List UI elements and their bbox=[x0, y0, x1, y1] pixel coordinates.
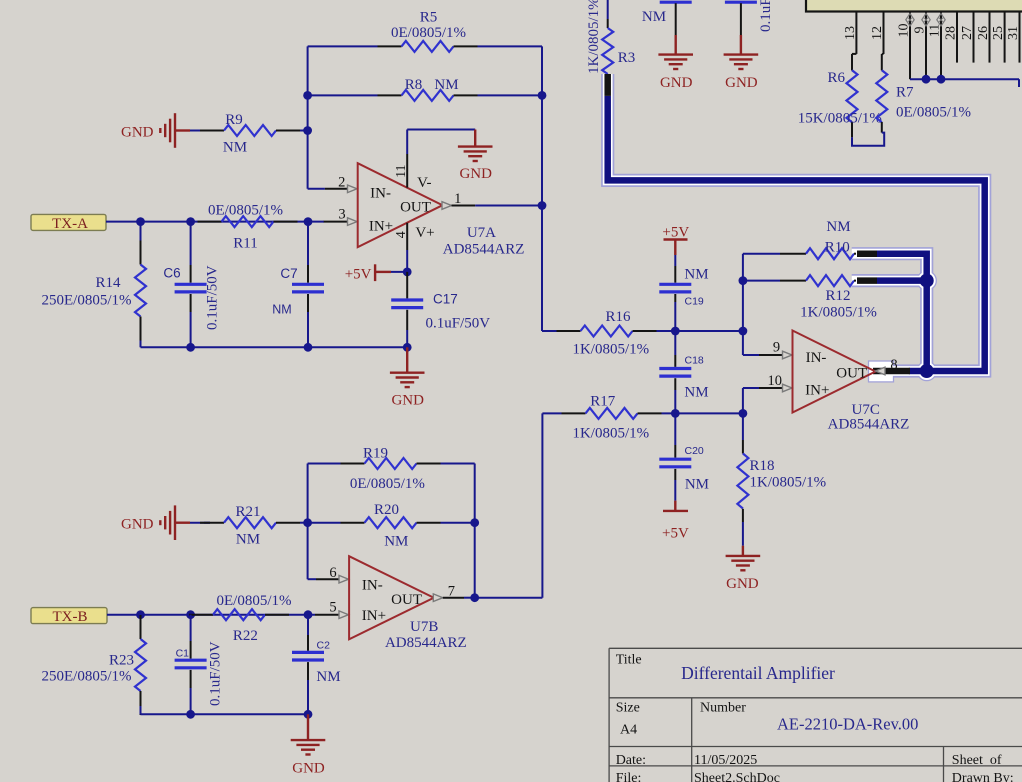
IC pin 11 bbox=[928, 12, 946, 80]
junction TX-B / C2 bbox=[304, 610, 313, 619]
svg-text:6: 6 bbox=[329, 565, 336, 581]
junction blob on highlighted net (output tee) bbox=[920, 364, 934, 378]
svg-text:OUT: OUT bbox=[400, 200, 431, 216]
svg-text:8: 8 bbox=[890, 357, 897, 373]
halo bump junction R12 bbox=[917, 271, 936, 290]
resistor R16 bbox=[557, 309, 743, 358]
svg-text:0.1uF: 0.1uF bbox=[758, 0, 774, 32]
svg-text:C19: C19 bbox=[685, 296, 704, 308]
pin 8 of U7C (highlighted) bbox=[873, 368, 910, 375]
junction C1 bottom bbox=[186, 710, 195, 719]
pin 8 arrow of U7C bbox=[876, 357, 898, 375]
junction V+ / C17 bbox=[403, 268, 412, 277]
svg-text:C18: C18 bbox=[685, 355, 704, 367]
svg-text:Title: Title bbox=[616, 653, 642, 668]
capacitor C17 bbox=[391, 272, 490, 347]
svg-text:R18: R18 bbox=[750, 458, 775, 474]
svg-text:R11: R11 bbox=[233, 236, 257, 252]
svg-text:TX-B: TX-B bbox=[53, 609, 88, 625]
svg-text:12: 12 bbox=[870, 26, 885, 40]
svg-text:R19: R19 bbox=[363, 446, 388, 462]
junction output U7B bbox=[470, 593, 479, 602]
svg-text:0E/0805/1%: 0E/0805/1% bbox=[217, 593, 292, 609]
junction TX-A / R14 bbox=[136, 217, 145, 226]
svg-text:R7: R7 bbox=[896, 85, 914, 101]
svg-text:C20: C20 bbox=[685, 445, 704, 457]
capacitor (top, partially off-canvas) bbox=[660, 0, 692, 55]
junction R17 / C20 column bbox=[671, 409, 680, 418]
svg-text:7: 7 bbox=[448, 583, 455, 599]
svg-text:13: 13 bbox=[843, 26, 858, 40]
svg-text:R9: R9 bbox=[225, 112, 243, 128]
svg-text:AD8544ARZ: AD8544ARZ bbox=[828, 417, 910, 433]
svg-text:Differentail Amplifier: Differentail Amplifier bbox=[681, 663, 835, 683]
svg-text:NM: NM bbox=[434, 77, 458, 93]
svg-text:C6: C6 bbox=[163, 266, 180, 281]
resistor R19 bbox=[308, 446, 475, 493]
svg-text:IN+: IN+ bbox=[805, 383, 829, 399]
wire V- to ground bbox=[407, 130, 475, 147]
svg-text:C2: C2 bbox=[317, 639, 331, 651]
resistor R14 bbox=[42, 222, 147, 348]
svg-text:R5: R5 bbox=[420, 10, 438, 26]
svg-text:GND: GND bbox=[726, 576, 759, 592]
svg-text:TX-A: TX-A bbox=[52, 216, 88, 232]
svg-text:1K/0805/1%: 1K/0805/1% bbox=[750, 475, 827, 491]
resistor R7 bbox=[876, 54, 971, 133]
svg-text:GND: GND bbox=[725, 75, 758, 91]
svg-text:IN-: IN- bbox=[806, 350, 827, 366]
IC pin 10 bbox=[897, 12, 915, 80]
pin 5 arrow bbox=[329, 600, 348, 619]
value NM of top capacitor bbox=[642, 9, 666, 25]
wire left rail of U7A feedback bbox=[307, 46, 309, 188]
svg-text:1K/0805/1%: 1K/0805/1% bbox=[572, 342, 649, 358]
svg-text:R10: R10 bbox=[825, 239, 850, 255]
svg-text:NM: NM bbox=[223, 140, 247, 156]
svg-text:IN-: IN- bbox=[362, 577, 383, 593]
svg-text:AE-2210-DA-Rev.00: AE-2210-DA-Rev.00 bbox=[777, 715, 918, 734]
junction R17 / R18 column bbox=[739, 409, 748, 418]
svg-text:Date:: Date: bbox=[616, 753, 646, 768]
pin 11 wire (V-) bbox=[406, 130, 408, 188]
svg-text:0E/0805/1%: 0E/0805/1% bbox=[391, 25, 466, 41]
svg-text:250E/0805/1%: 250E/0805/1% bbox=[42, 293, 132, 309]
ground symbol left of R9 bbox=[121, 113, 210, 148]
capacitor C7 bbox=[272, 222, 324, 348]
junction R9 right bbox=[303, 126, 312, 135]
IC pin 28 bbox=[944, 12, 959, 63]
svg-text:0.1uF/50V: 0.1uF/50V bbox=[208, 641, 224, 706]
svg-text:NM: NM bbox=[684, 385, 708, 401]
resistor R10 bbox=[743, 219, 856, 259]
svg-text:NM: NM bbox=[384, 534, 408, 550]
svg-text:U7A: U7A bbox=[467, 225, 496, 241]
svg-text:U7C: U7C bbox=[852, 402, 880, 418]
junction R21/R19 rail bbox=[303, 518, 312, 527]
svg-text:GND: GND bbox=[459, 166, 492, 182]
pin 8 halo box bbox=[869, 361, 894, 382]
resistor R17 bbox=[542, 394, 743, 442]
wire U7A rail to R16 bbox=[542, 330, 557, 332]
resistor R21 bbox=[200, 504, 308, 548]
svg-text:1K/0805/1%: 1K/0805/1% bbox=[572, 426, 649, 442]
junction on pin-9 wire bbox=[922, 75, 931, 84]
capacitor C1 bbox=[175, 615, 224, 715]
resistor R23 bbox=[42, 615, 147, 715]
power +5V below C20 bbox=[662, 501, 689, 542]
wire pin 2 of U7A bbox=[308, 188, 349, 190]
svg-text:250E/0805/1%: 250E/0805/1% bbox=[42, 669, 132, 685]
pin 7 output of U7B bbox=[433, 583, 474, 601]
svg-text:Number: Number bbox=[700, 701, 746, 716]
svg-text:AD8544ARZ: AD8544ARZ bbox=[385, 635, 467, 651]
port TX-B bbox=[31, 608, 107, 625]
svg-text:10: 10 bbox=[767, 373, 782, 389]
svg-text:NM: NM bbox=[642, 9, 666, 25]
svg-text:0E/0805/1%: 0E/0805/1% bbox=[350, 476, 425, 492]
svg-text:25: 25 bbox=[991, 26, 1006, 40]
junction C6 bottom bbox=[186, 343, 195, 352]
wire pin 9 of U7C bbox=[743, 354, 784, 356]
svg-text:GND: GND bbox=[660, 75, 693, 91]
title block frame bbox=[609, 648, 1022, 782]
junction on pin-11 wire bbox=[937, 75, 946, 84]
pin 10 arrow bbox=[767, 373, 792, 392]
junction C17 bottom bbox=[403, 343, 412, 352]
wire pin 6 of U7B bbox=[308, 578, 340, 580]
svg-text:R20: R20 bbox=[374, 502, 399, 518]
resistor R8 bbox=[308, 77, 542, 101]
junction C2 bottom bbox=[304, 710, 313, 719]
svg-text:31: 31 bbox=[1006, 26, 1021, 40]
resistor R3 bbox=[586, 0, 635, 74]
junction TX-B / R23 bbox=[136, 610, 145, 619]
wire pin 5 of U7B bbox=[315, 614, 340, 616]
junction R8 right bbox=[538, 91, 547, 100]
svg-text:R17: R17 bbox=[590, 394, 616, 410]
junction TX-B / C1 bbox=[186, 610, 195, 619]
capacitor C2 bbox=[292, 615, 341, 715]
resistor R18 bbox=[737, 413, 826, 545]
svg-text:9: 9 bbox=[913, 27, 928, 34]
pin 2 arrow bbox=[338, 175, 357, 193]
svg-text:11/05/2025: 11/05/2025 bbox=[694, 753, 757, 768]
pin 6 arrow bbox=[329, 565, 348, 583]
svg-text:NM: NM bbox=[236, 532, 260, 548]
svg-text:0E/0805/1%: 0E/0805/1% bbox=[896, 105, 971, 121]
IC pin 25 bbox=[991, 12, 1006, 63]
svg-text:Sheet of: Sheet of bbox=[952, 753, 1002, 768]
svg-text:R16: R16 bbox=[605, 309, 631, 325]
svg-text:V-: V- bbox=[417, 175, 431, 191]
junction R16 / pin9 column bbox=[739, 327, 748, 336]
svg-text:NM: NM bbox=[684, 267, 708, 283]
wire left rail of U7B feedback bbox=[307, 464, 309, 580]
junction output U7A bbox=[538, 201, 547, 210]
halo bump junction output tee bbox=[917, 361, 936, 380]
svg-text:GND: GND bbox=[292, 761, 325, 777]
highlighted net halo bbox=[608, 74, 985, 371]
resistor R9 bbox=[200, 112, 308, 156]
junction TX-A / C6 bbox=[186, 217, 195, 226]
IC pin 12 bbox=[870, 12, 885, 55]
svg-text:AD8544ARZ: AD8544ARZ bbox=[443, 242, 525, 258]
svg-text:26: 26 bbox=[976, 26, 991, 40]
svg-text:1: 1 bbox=[454, 191, 461, 207]
pin of R12 (highlighted) bbox=[857, 277, 877, 284]
svg-text:9: 9 bbox=[773, 340, 780, 356]
svg-text:+5V: +5V bbox=[662, 526, 689, 542]
svg-text:R3: R3 bbox=[618, 50, 636, 66]
capacitor C6 bbox=[163, 222, 220, 348]
value 0.1uF of top capacitor bbox=[758, 0, 774, 32]
svg-text:Size: Size bbox=[616, 701, 640, 716]
svg-text:R22: R22 bbox=[233, 628, 258, 644]
pin 3 arrow bbox=[338, 207, 357, 226]
svg-text:1K/0805/1%: 1K/0805/1% bbox=[586, 0, 602, 74]
ground symbol below R18 bbox=[726, 546, 761, 592]
svg-text:R8: R8 bbox=[405, 77, 423, 93]
svg-text:NM: NM bbox=[685, 477, 709, 493]
svg-text:R21: R21 bbox=[235, 504, 260, 520]
svg-text:R6: R6 bbox=[827, 70, 845, 86]
svg-text:NM: NM bbox=[272, 303, 291, 317]
pin 1 output of U7A bbox=[442, 191, 542, 209]
svg-text:3: 3 bbox=[338, 207, 345, 223]
capacitor (top, partially off-canvas) bbox=[725, 0, 757, 55]
svg-text:A4: A4 bbox=[620, 723, 637, 738]
svg-text:IN-: IN- bbox=[370, 185, 391, 201]
junction blob on highlighted net (R12 corner) bbox=[920, 274, 934, 288]
svg-text:R12: R12 bbox=[825, 288, 850, 304]
wire TX-A main line bbox=[106, 221, 324, 223]
svg-text:+5V: +5V bbox=[345, 266, 372, 282]
wire TX-B main line bbox=[107, 614, 315, 616]
power +5V for U7A bbox=[345, 264, 407, 282]
svg-text:OUT: OUT bbox=[836, 366, 867, 382]
op-amp U7A bbox=[358, 163, 525, 257]
junction R16 / C19 column bbox=[671, 327, 680, 336]
ground symbol below C17 bbox=[390, 347, 425, 408]
resistor R6 bbox=[798, 54, 882, 137]
wire pin 3 of U7A bbox=[324, 221, 349, 223]
wire R10/R12 left rail bbox=[742, 254, 744, 355]
svg-text:0.1uF/50V: 0.1uF/50V bbox=[426, 316, 491, 332]
capacitor C18 bbox=[659, 355, 708, 414]
junction C7 bottom bbox=[304, 343, 313, 352]
wire net from IC pins 10/9/11 bbox=[910, 79, 1019, 87]
svg-text:10: 10 bbox=[897, 24, 912, 38]
junction R12 left bbox=[739, 276, 748, 285]
svg-text:IN+: IN+ bbox=[369, 219, 393, 235]
svg-text:IN+: IN+ bbox=[362, 608, 386, 624]
pin 9 arrow bbox=[773, 340, 792, 359]
op-amp U7C bbox=[793, 331, 910, 433]
junction R8 left bbox=[303, 91, 312, 100]
wire bottom rail of TX-A filter bbox=[141, 346, 408, 348]
power +5V above C19 bbox=[662, 225, 689, 267]
resistor R11 bbox=[198, 203, 298, 252]
svg-text:Sheet2.SchDoc: Sheet2.SchDoc bbox=[694, 771, 780, 782]
pin of R10 (highlighted) bbox=[857, 250, 877, 257]
ground symbol below C2 bbox=[291, 714, 326, 776]
svg-text:OUT: OUT bbox=[391, 592, 422, 608]
svg-text:1K/0805/1%: 1K/0805/1% bbox=[800, 305, 877, 321]
wire right rail of U7A output bbox=[541, 46, 543, 331]
wire pin 10 of U7C bbox=[743, 388, 784, 413]
capacitor C19 bbox=[659, 266, 708, 331]
wire right rail of U7B output bbox=[474, 464, 476, 598]
wire joining R6/R7 bottoms bbox=[852, 133, 884, 146]
svg-text:15K/0805/1%: 15K/0805/1% bbox=[798, 111, 882, 127]
IC pin 13 bbox=[843, 12, 858, 54]
pin 4 wire (V+) bbox=[406, 223, 408, 272]
IC pin 26 bbox=[976, 12, 991, 63]
highlighted net wires bbox=[608, 96, 985, 371]
svg-text:C1: C1 bbox=[176, 648, 190, 660]
resistor R20 bbox=[308, 502, 475, 550]
svg-text:U7B: U7B bbox=[410, 619, 438, 635]
IC U? body (off-canvas top-right) bbox=[806, 0, 1022, 12]
svg-text:R14: R14 bbox=[95, 275, 121, 291]
IC pin 9 bbox=[913, 12, 931, 80]
ground symbol left of R21 bbox=[121, 505, 210, 540]
svg-text:GND: GND bbox=[121, 517, 154, 533]
svg-text:C17: C17 bbox=[433, 292, 458, 307]
svg-text:+5V: +5V bbox=[662, 225, 689, 241]
svg-text:R23: R23 bbox=[109, 653, 134, 669]
resistor R22 bbox=[189, 593, 292, 644]
svg-text:5: 5 bbox=[329, 600, 336, 616]
ground symbol above U7A bbox=[458, 147, 493, 182]
capacitor C20 bbox=[659, 413, 709, 500]
ground symbol bbox=[724, 55, 759, 91]
svg-text:0E/0805/1%: 0E/0805/1% bbox=[208, 203, 283, 219]
wire C19-C18 bbox=[674, 331, 676, 355]
svg-text:27: 27 bbox=[960, 26, 975, 40]
resistor R12 bbox=[743, 275, 877, 320]
title block texts bbox=[616, 653, 1014, 782]
svg-text:C7: C7 bbox=[280, 266, 297, 281]
svg-text:NM: NM bbox=[316, 669, 340, 685]
svg-text:11: 11 bbox=[928, 24, 943, 37]
junction TX-A / C7 bbox=[304, 217, 313, 226]
svg-text:2: 2 bbox=[338, 175, 345, 191]
op-amp U7B bbox=[349, 556, 467, 651]
svg-text:0.1uF/50V: 0.1uF/50V bbox=[205, 265, 221, 330]
svg-text:File:: File: bbox=[616, 771, 642, 782]
wire bottom rail of TX-B filter bbox=[141, 713, 309, 715]
svg-text:GND: GND bbox=[391, 393, 424, 409]
IC pin 27 bbox=[960, 12, 975, 63]
svg-text:28: 28 bbox=[944, 26, 959, 40]
wire U7B output to R17 rail bbox=[475, 413, 543, 597]
junction R20 right bbox=[470, 518, 479, 527]
svg-text:Drawn By:: Drawn By: bbox=[952, 771, 1014, 782]
resistor R5 bbox=[308, 10, 542, 52]
pin of R3 (highlighted) bbox=[604, 74, 611, 96]
svg-text:V+: V+ bbox=[415, 225, 434, 241]
IC pin 31 bbox=[1006, 12, 1021, 63]
port TX-A bbox=[31, 214, 106, 232]
svg-text:GND: GND bbox=[121, 124, 154, 140]
svg-text:NM: NM bbox=[826, 219, 850, 235]
ground symbol bbox=[658, 55, 693, 91]
